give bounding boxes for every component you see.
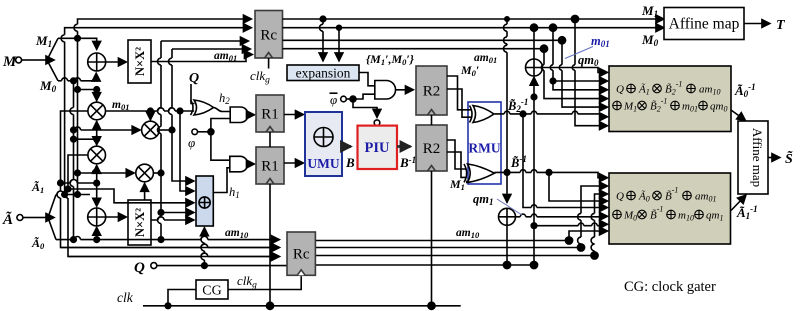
wire PIU to R2b thick: [397, 145, 411, 148]
block NxX2 top: [128, 40, 151, 83]
label clkg top: [250, 68, 270, 86]
svg-text:Rc: Rc: [260, 28, 277, 44]
svg-text:T: T: [776, 18, 786, 33]
wire Rc top clock stub: [268, 58, 270, 69]
svg-text:am01: am01: [474, 52, 497, 65]
input M: [2, 54, 36, 70]
svg-text:M0′: M0′: [460, 63, 479, 78]
svg-text:Q: Q: [134, 260, 145, 276]
svg-text:expansion: expansion: [296, 66, 351, 81]
wire m01 left branch down to bus2: [57, 111, 280, 248]
svg-text:m01: m01: [112, 99, 129, 112]
multiplier C (m10): [88, 146, 106, 164]
wire to XOR2 top: [96, 183, 98, 206]
svg-text:UMU: UMU: [307, 156, 339, 171]
wire Rc out L3 right: [283, 37, 566, 44]
svg-text:M0: M0: [641, 32, 659, 48]
wire XG2 out: [106, 216, 127, 218]
svg-text:M0: M0: [39, 78, 57, 94]
formula box1 line1: [616, 80, 720, 97]
svg-text:PIU: PIU: [365, 140, 391, 156]
input Q bottom: [134, 260, 287, 276]
label B inverse: [399, 155, 416, 170]
block Affine map top: [664, 8, 744, 40]
svg-text:clkg: clkg: [250, 68, 270, 86]
svg-text:am10: am10: [225, 227, 249, 240]
label m01 blue callout: [565, 34, 610, 59]
wire multD bottom in from NxX2b: [144, 183, 146, 200]
wire AND1 out: [248, 114, 254, 116]
and gate AND1: [230, 107, 248, 123]
wire V4 x544 to box1: [541, 49, 607, 99]
wire phibar down to PIU: [353, 99, 380, 125]
label qm0: [578, 53, 599, 68]
svg-text:Q: Q: [616, 191, 624, 203]
xor gate RMU top: [470, 106, 495, 123]
label M0': [460, 63, 479, 78]
node M0: [39, 78, 57, 94]
svg-text:B-1: B-1: [399, 155, 416, 170]
svg-text:h1: h1: [229, 185, 240, 200]
wire phi up to AND1: [211, 119, 230, 132]
wire expansion riser 1: [320, 19, 324, 61]
wire Rc2 out1: [315, 237, 572, 244]
label m01: [112, 99, 129, 112]
wire V2 x523: [520, 111, 607, 207]
wire Rc2 out3: [315, 252, 598, 259]
wire multB left in: [74, 127, 141, 130]
svg-text:Ã0: Ã0: [31, 236, 45, 251]
svg-text:clkg: clkg: [237, 273, 257, 291]
svg-text:CG: CG: [202, 284, 221, 299]
node A1: [31, 180, 44, 195]
svg-text:CG: clock gater: CG: clock gater: [624, 279, 716, 295]
wire M0 to XOR1: [58, 73, 96, 84]
demux A fanout: [38, 195, 56, 240]
svg-text:Ã1-1: Ã1-1: [736, 204, 758, 221]
wire XG2 bottom in from A0: [94, 227, 100, 242]
label am01: [214, 50, 237, 63]
input Atilde: [2, 210, 38, 228]
wire R2b out2: [447, 152, 466, 177]
wire V3 x534 lower: [530, 97, 537, 269]
svg-text:{M1′,M0′}: {M1′,M0′}: [366, 52, 415, 67]
wire V3 x534 top: [533, 28, 535, 59]
label B: [345, 155, 355, 170]
svg-text:qm1: qm1: [473, 192, 493, 207]
wire Q riser to xorblock: [201, 228, 204, 266]
wire expansion riser 2: [338, 28, 340, 61]
wire riser 569 to box2: [569, 231, 608, 241]
svg-text:φ: φ: [188, 135, 195, 150]
wire h1 out to AND2: [213, 168, 230, 193]
svg-text:Q: Q: [616, 84, 624, 96]
wire R2t out2: [447, 89, 472, 117]
svg-text:Q: Q: [189, 71, 199, 86]
svg-text:Rc: Rc: [293, 247, 310, 263]
label am01 mid: [474, 52, 497, 65]
and gate AND3: [375, 81, 396, 100]
wire Binv line to box2: [495, 170, 608, 178]
wire CG to Rc bottom clkg: [228, 276, 301, 289]
svg-text:qm0: qm0: [578, 53, 599, 68]
svg-text:clk: clk: [117, 290, 134, 305]
label M1': [449, 177, 468, 192]
svg-text:R2: R2: [423, 84, 441, 100]
register R1 top: [256, 95, 284, 132]
wire R1t out to UMU: [284, 114, 304, 116]
block RMU: [468, 102, 501, 184]
wire riser x172 to Rc4: [169, 49, 251, 181]
register Rc bottom: [287, 232, 315, 275]
wire bus2 hop: [61, 244, 280, 247]
svg-text:Affine map: Affine map: [750, 128, 765, 187]
block olive box bottom: [609, 173, 731, 244]
wire NxX2b out to xorblock in5: [151, 217, 194, 220]
svg-text:Ã: Ã: [2, 210, 13, 228]
label h1: [229, 185, 240, 200]
wire Rc out L4 right: [283, 45, 548, 52]
wire m10 branch down to bus3: [65, 155, 280, 257]
svg-text:am01: am01: [214, 50, 237, 63]
block Affine map vertical: [738, 121, 768, 194]
xor gate RMU bottom: [464, 164, 495, 182]
label Binv: [510, 154, 527, 170]
wire V13 x549 to box2: [549, 172, 608, 201]
wire V5 x553 to box1: [550, 28, 607, 90]
wire m01 line to h2 xor: [106, 108, 195, 114]
wire Rc out L2 right: [283, 24, 665, 31]
label M1 affine: [641, 3, 658, 19]
svg-text:M1: M1: [641, 3, 658, 19]
formula box1 line2: [613, 97, 728, 114]
svg-text:S̃: S̃: [785, 149, 793, 167]
label A0 inverse: [734, 82, 756, 99]
label qm1: [473, 192, 522, 215]
wire to multA top: [78, 87, 100, 101]
wire L1: M1 up to Rc and right: [74, 19, 252, 38]
block olive box top: [609, 66, 731, 132]
node A0: [31, 236, 45, 251]
svg-text:M: M: [2, 54, 17, 70]
wire S out: [768, 149, 793, 167]
multiplier A (m01): [88, 102, 106, 120]
label M1' M0' set: [366, 52, 415, 67]
wire R2t out1: [447, 76, 472, 110]
svg-text:RMU: RMU: [468, 141, 500, 156]
svg-text:B̃-1: B̃-1: [510, 154, 527, 170]
wire A0 line bus1: [56, 236, 280, 242]
wire riser 594 to box2: [591, 194, 608, 256]
svg-text:N×X²: N×X²: [133, 208, 147, 237]
input phi left: [188, 129, 214, 150]
block UMU: [305, 112, 342, 176]
wire Rc2 out2: [315, 244, 584, 251]
wire 183 line: [61, 180, 97, 183]
wire lineB to xorblock in3: [68, 189, 194, 203]
wire clk to CG: [168, 290, 196, 306]
svg-text:h2: h2: [219, 91, 230, 106]
wire olive1 to affine2: [731, 110, 746, 121]
svg-text:B: B: [345, 155, 355, 170]
svg-text:Affine map: Affine map: [669, 16, 740, 33]
wire R2 clock chain: [428, 115, 435, 309]
wire phibar to AND3: [353, 94, 375, 99]
register Rc top: [255, 11, 283, 59]
wire multB out to riser x172: [159, 127, 175, 133]
label M0 affine: [641, 32, 659, 48]
wire UMU to PIU thick: [342, 145, 351, 148]
wire qm1 bottom to Q line: [503, 225, 510, 268]
register R1 bottom: [256, 147, 284, 184]
register R2 top: [416, 66, 447, 115]
wire multC bottom in: [94, 165, 100, 186]
wire Rc2 out4 Q ext: [315, 264, 534, 266]
wire M1 to XOR1: [58, 36, 97, 50]
wire riser 581 to box2: [578, 186, 608, 248]
xor adder XG1: [88, 53, 106, 71]
wire Rc out L1 right: [283, 15, 665, 22]
wire qm0 up arrow: [531, 77, 537, 100]
label am10 left: [225, 227, 249, 240]
svg-text:M1: M1: [35, 33, 52, 49]
svg-text:N×X²: N×X²: [133, 47, 147, 76]
input phibar: [330, 92, 357, 107]
wire A1 line: [56, 191, 90, 195]
wire am10 line to box2: [534, 223, 608, 226]
wire L2: vertical x64.6 down to A1 line, up to Rc line2: [61, 28, 251, 198]
wire olive2 to affine2: [731, 195, 746, 211]
label A1 inverse: [736, 204, 758, 221]
multiplier B: [142, 121, 160, 139]
wire phi down to AND2: [211, 132, 230, 160]
wire V7 x575 to box1: [572, 19, 607, 126]
label B2inv: [507, 97, 528, 114]
svg-text:R2: R2: [423, 141, 441, 157]
label h2: [219, 91, 230, 106]
block NxX2 bottom: [128, 200, 151, 245]
label CG legend: [624, 279, 716, 295]
wire riser x180 to xorblock in2: [180, 111, 194, 191]
xor gate h2: [191, 100, 214, 115]
label am10 bus: [456, 227, 480, 240]
wire AND2 out: [248, 163, 255, 165]
wire vertical x77.5: [75, 38, 81, 197]
block expansion: [287, 65, 359, 81]
formula box2 line2: [613, 205, 724, 223]
adder qm1: [499, 208, 516, 225]
register R2 bottom: [416, 125, 447, 171]
wire V1 qm1 feed x507: [504, 19, 510, 203]
wire bus3 hop: [68, 253, 280, 256]
wire multB top in: [149, 111, 151, 120]
wire AND3 out to R2t: [396, 89, 414, 91]
wire multC top in: [96, 139, 98, 145]
wire B2inv line to box1: [495, 111, 608, 117]
svg-text:am10: am10: [456, 227, 480, 240]
wire R1 clock chain: [266, 132, 273, 309]
and gate AND2: [230, 156, 248, 172]
wire multD left in: [78, 169, 135, 173]
wire R1b out to UMU: [284, 162, 304, 164]
block PIU: [358, 126, 398, 169]
svg-text:m01: m01: [591, 34, 610, 49]
wire V6 x562 to box1: [559, 40, 607, 107]
adder block h1 (vertical XOR block): [196, 176, 213, 226]
demux M fanout: [36, 38, 58, 81]
input Q top: [189, 71, 199, 104]
node M1: [35, 33, 52, 49]
multiplier D: [136, 164, 154, 182]
svg-text:Ã1: Ã1: [31, 180, 44, 195]
wire multA bottom in: [74, 121, 100, 142]
label clk: [117, 290, 134, 305]
svg-text:φ: φ: [330, 92, 337, 107]
svg-text:R1: R1: [261, 159, 279, 175]
formula box2 line1: [616, 186, 716, 204]
wire expansion out to AND3: [359, 73, 375, 86]
wire qm0 line to box1: [543, 68, 608, 73]
wire vertical x73.5: [70, 81, 76, 243]
wire am01 from NxX2 to Rc: [151, 55, 253, 62]
wire multD out to riser x161: [153, 170, 163, 176]
block CG: [196, 280, 228, 299]
wire riser x161 to Rc3: [158, 41, 249, 240]
wire XG1 out: [106, 61, 127, 63]
wire h2 to AND1: [213, 108, 230, 112]
label clkg bottom: [237, 273, 257, 291]
svg-text:R1: R1: [261, 107, 279, 123]
wire R2b out1: [447, 140, 466, 169]
wire branch to xorblock in4: [161, 212, 194, 214]
adder qm0: [526, 59, 543, 76]
svg-text:Ã0-1: Ã0-1: [734, 82, 756, 99]
xor adder XG2: [88, 208, 106, 226]
wire clk line: [143, 303, 461, 309]
wire T out: [744, 18, 786, 33]
wire qm1 line to box2: [516, 214, 608, 217]
